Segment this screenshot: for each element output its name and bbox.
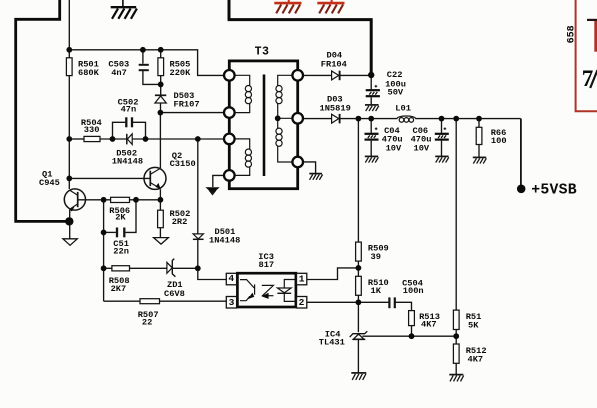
svg-text:C6V8: C6V8	[164, 289, 185, 299]
svg-text:330: 330	[84, 125, 100, 135]
svg-text:39: 39	[371, 252, 381, 262]
svg-text:4: 4	[228, 273, 234, 284]
svg-text:2K: 2K	[115, 213, 126, 223]
svg-text:220K: 220K	[170, 68, 192, 78]
svg-text:5K: 5K	[468, 320, 479, 330]
svg-text:817: 817	[259, 260, 275, 270]
svg-text:2: 2	[299, 297, 305, 308]
svg-text:T3: T3	[255, 45, 270, 58]
svg-text:100: 100	[491, 136, 507, 146]
svg-text:1N4148: 1N4148	[209, 235, 240, 245]
svg-text:100n: 100n	[403, 286, 424, 296]
svg-text:+5VSB: +5VSB	[531, 183, 577, 199]
svg-text:1N4148: 1N4148	[112, 156, 143, 166]
svg-text:1K: 1K	[371, 286, 382, 296]
svg-text:L01: L01	[395, 103, 411, 113]
svg-text:50V: 50V	[388, 88, 404, 98]
svg-text:FR107: FR107	[174, 100, 200, 110]
svg-text:658: 658	[566, 25, 577, 43]
svg-text:1: 1	[299, 273, 305, 284]
svg-text:4n7: 4n7	[111, 68, 127, 78]
svg-text:2R2: 2R2	[172, 217, 188, 227]
svg-text:10V: 10V	[386, 143, 402, 153]
svg-text:47n: 47n	[121, 105, 137, 115]
svg-text:3: 3	[229, 297, 235, 308]
svg-text:4K7: 4K7	[468, 355, 484, 365]
svg-text:FR104: FR104	[321, 60, 347, 70]
svg-text:680K: 680K	[78, 68, 100, 78]
svg-text:TL431: TL431	[319, 338, 345, 348]
svg-text:C945: C945	[39, 178, 60, 188]
svg-text:2K7: 2K7	[111, 284, 127, 294]
svg-text:1N5819: 1N5819	[320, 104, 351, 114]
svg-text:10V: 10V	[414, 143, 430, 153]
svg-text:4K7: 4K7	[421, 320, 437, 330]
svg-text:22n: 22n	[113, 246, 129, 256]
svg-text:C3150: C3150	[170, 159, 196, 169]
svg-text:22: 22	[142, 318, 152, 328]
